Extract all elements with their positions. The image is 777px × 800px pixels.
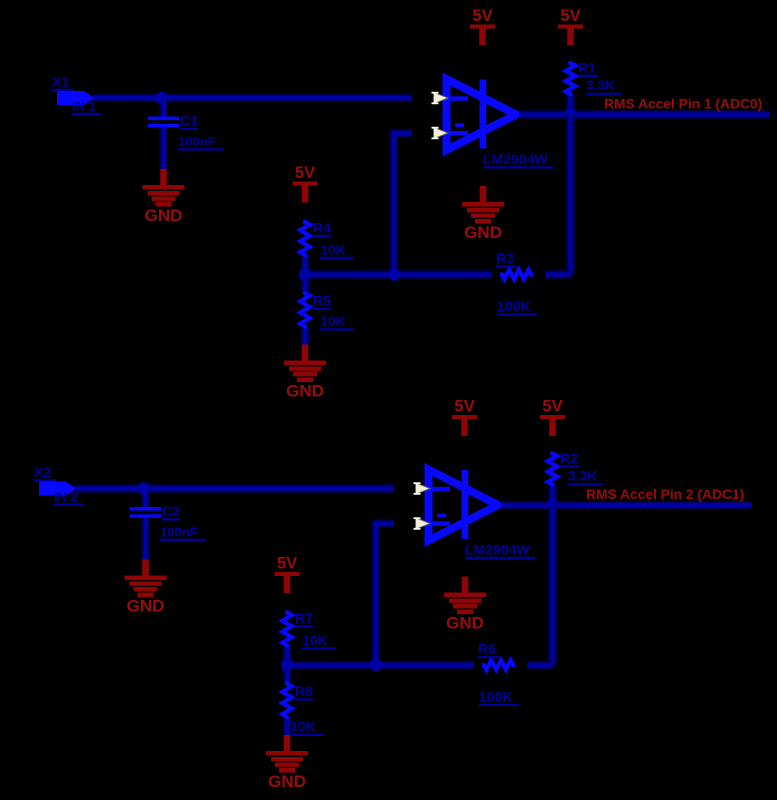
svg-text:R2: R2 xyxy=(560,450,578,466)
resistor R5 divider lower xyxy=(300,291,309,329)
svg-text:R7: R7 xyxy=(295,610,313,626)
connector X2 designator X2 xyxy=(34,464,56,481)
power +5V above divider xyxy=(275,554,300,593)
resistor designator R1 xyxy=(578,60,598,77)
node junction divider center xyxy=(281,659,293,671)
wire wire inverting input to divider xyxy=(394,133,412,275)
svg-text:100nF: 100nF xyxy=(160,525,198,540)
svg-text:5V: 5V xyxy=(472,7,492,25)
capacitor C1 xyxy=(148,117,179,128)
ground below capacitor xyxy=(143,169,185,225)
op-amp non-inv input pin arrow xyxy=(414,482,431,494)
svg-text:GND: GND xyxy=(127,597,165,616)
resistor designator R5 xyxy=(313,293,331,310)
net label RMS Accel Pin 2 (ADC1) xyxy=(586,487,744,502)
svg-text:10K: 10K xyxy=(302,632,328,648)
capacitor value 100nF xyxy=(160,525,206,541)
wire wire pull-up to output xyxy=(566,96,575,115)
resistor R1 pull-up xyxy=(566,61,575,96)
resistor value 100K xyxy=(479,689,519,706)
svg-text:IN 2: IN 2 xyxy=(54,489,78,504)
wire wire capacitor tap down xyxy=(141,489,150,508)
svg-text:IN 1: IN 1 xyxy=(72,99,96,114)
ground below op-amp xyxy=(462,186,504,242)
svg-text:100nF: 100nF xyxy=(178,134,216,149)
power +5V above pull-up resistor xyxy=(558,7,583,46)
svg-text:R1: R1 xyxy=(578,60,596,76)
svg-text:RMS Accel Pin 2 (ADC1): RMS Accel Pin 2 (ADC1) xyxy=(586,487,744,502)
node junction divider/inv-input xyxy=(370,659,382,671)
svg-text:5V: 5V xyxy=(295,164,315,182)
op-amp U1A xyxy=(447,79,517,150)
wire wire feedback right stub xyxy=(527,661,553,670)
svg-text:GND: GND xyxy=(286,382,324,401)
wire wire capacitor tap down xyxy=(159,98,168,117)
resistor R4 divider upper xyxy=(300,220,309,257)
resistor designator R3 xyxy=(496,250,517,267)
svg-text:5V: 5V xyxy=(277,554,297,572)
power +5V above divider xyxy=(293,164,318,203)
node junction output/pull-up/feedback xyxy=(564,108,576,120)
resistor designator R8 xyxy=(295,683,313,700)
power +5V above pull-up resistor xyxy=(540,397,565,436)
svg-text:R6: R6 xyxy=(478,641,496,657)
svg-text:R3: R3 xyxy=(496,250,514,266)
wire wire divider to feedback resistor xyxy=(305,270,492,279)
capacitor value 100nF xyxy=(178,134,224,150)
svg-text:X2: X2 xyxy=(34,464,51,480)
svg-text:3.3K: 3.3K xyxy=(586,78,615,93)
svg-text:10K: 10K xyxy=(290,719,316,735)
net label RMS Accel Pin 1 (ADC0) xyxy=(604,96,762,111)
resistor R8 divider lower xyxy=(282,682,291,720)
resistor value 3.3K xyxy=(568,469,603,486)
resistor R3 feedback xyxy=(500,270,533,279)
resistor designator R4 xyxy=(313,220,331,237)
op-amp inv input pin arrow xyxy=(432,127,449,139)
svg-text:100K: 100K xyxy=(497,298,530,314)
ground below divider xyxy=(284,345,326,401)
resistor designator R2 xyxy=(560,450,580,467)
connector X2 net name IN 2 xyxy=(54,489,83,505)
resistor R7 divider upper xyxy=(282,611,291,648)
wire wire divider middle xyxy=(283,648,292,682)
svg-text:GND: GND xyxy=(464,223,502,242)
resistor value 10K lower xyxy=(290,719,324,736)
wire wire divider middle xyxy=(301,257,310,291)
wire output net xyxy=(519,110,770,119)
power +5V above op-amp xyxy=(470,7,495,46)
svg-text:GND: GND xyxy=(145,206,183,225)
op-amp U1A label LM2904W xyxy=(483,151,553,168)
wire wire divider to feedback resistor xyxy=(287,661,474,670)
op-amp non-inv input pin arrow xyxy=(432,92,449,104)
ground below divider xyxy=(266,735,308,791)
svg-text:5V: 5V xyxy=(542,397,562,415)
power +5V above op-amp xyxy=(452,397,477,436)
svg-text:RMS Accel Pin 1 (ADC0): RMS Accel Pin 1 (ADC0) xyxy=(604,96,762,111)
connector X1 net name IN 1 xyxy=(72,99,101,115)
ground below op-amp xyxy=(444,577,486,633)
resistor value 3.3K xyxy=(586,78,621,95)
op-amp inv input pin arrow xyxy=(414,517,431,529)
svg-text:C2: C2 xyxy=(162,503,180,519)
svg-text:GND: GND xyxy=(446,614,484,633)
wire input net from X2 to op-amp xyxy=(75,484,394,493)
wire input net from X1 to op-amp xyxy=(93,94,412,103)
node junction input/capacitor xyxy=(155,92,167,104)
resistor value 10K lower xyxy=(320,313,354,330)
wire wire pull-up to output xyxy=(548,487,557,506)
resistor value 10K xyxy=(320,242,354,259)
ground below capacitor xyxy=(125,560,167,616)
svg-text:R4: R4 xyxy=(313,220,331,236)
node junction output/pull-up/feedback xyxy=(546,499,558,511)
wire wire capacitor to ground xyxy=(141,518,150,560)
op-amp U1B xyxy=(429,470,499,541)
capacitor designator C1 xyxy=(180,113,198,130)
node junction divider center xyxy=(299,268,311,280)
resistor designator R7 xyxy=(295,610,313,627)
resistor designator R6 xyxy=(478,641,499,658)
wire wire divider to ground xyxy=(283,719,292,735)
svg-text:10K: 10K xyxy=(320,313,346,329)
svg-text:R5: R5 xyxy=(313,293,331,309)
wire wire feedback vertical xyxy=(566,115,575,275)
op-amp U1B label LM2904W xyxy=(465,542,535,559)
svg-text:C1: C1 xyxy=(180,113,198,129)
svg-text:LM2904W: LM2904W xyxy=(465,542,530,558)
svg-text:X1: X1 xyxy=(52,74,69,90)
resistor R2 pull-up xyxy=(548,452,557,487)
wire wire capacitor to ground xyxy=(159,128,168,170)
capacitor C2 xyxy=(130,507,161,518)
connector X2 pin symbol xyxy=(39,482,77,496)
node junction input/capacitor xyxy=(137,482,149,494)
resistor value 10K xyxy=(302,632,336,649)
svg-text:10K: 10K xyxy=(320,242,346,258)
svg-text:5V: 5V xyxy=(560,7,580,25)
wire wire divider to ground xyxy=(301,329,310,345)
svg-text:100K: 100K xyxy=(479,689,512,705)
wire output net xyxy=(501,501,752,510)
node junction divider/inv-input xyxy=(388,268,400,280)
svg-text:5V: 5V xyxy=(454,397,474,415)
svg-text:GND: GND xyxy=(268,772,306,791)
resistor value 100K xyxy=(497,298,537,315)
wire wire inverting input to divider xyxy=(376,524,394,666)
svg-text:3.3K: 3.3K xyxy=(568,469,597,484)
wire wire feedback vertical xyxy=(548,505,557,665)
capacitor designator C2 xyxy=(162,503,180,520)
svg-text:R8: R8 xyxy=(295,683,313,699)
connector X1 designator X1 xyxy=(52,74,74,91)
resistor R6 feedback xyxy=(482,660,515,669)
connector X1 pin symbol xyxy=(57,91,95,105)
svg-text:LM2904W: LM2904W xyxy=(483,151,548,167)
wire wire feedback right stub xyxy=(545,270,571,279)
